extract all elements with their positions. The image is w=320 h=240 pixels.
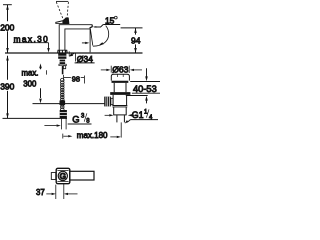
spout mouth <box>90 25 93 28</box>
faucet body inner contour <box>65 28 90 52</box>
lower shoulder line <box>113 114 126 116</box>
rod reference line <box>33 103 105 105</box>
stud step detail <box>63 66 65 69</box>
mounting stud <box>62 66 64 75</box>
dimension max.180 right arrow <box>110 136 116 138</box>
leader 15deg to spout <box>94 25 103 28</box>
shank threaded block <box>60 60 66 65</box>
dimension 94 arrows <box>134 28 137 33</box>
dimension 390 arrows <box>6 56 9 61</box>
waste locknut band <box>110 92 130 95</box>
svg-text:40-53: 40-53 <box>133 84 157 94</box>
svg-text:3: 3 <box>81 113 85 119</box>
hose end reference line <box>3 117 68 119</box>
svg-text:Ø63: Ø63 <box>112 65 128 75</box>
label diameter 34 underlined with tick <box>75 54 77 62</box>
dimension 37 arrows <box>46 193 51 195</box>
small tick <box>45 70 47 74</box>
svg-text:Ø34: Ø34 <box>77 54 93 64</box>
leader max.30 down arrow <box>48 43 50 49</box>
dimension max300 vertical <box>40 68 42 70</box>
svg-text:94: 94 <box>131 35 141 45</box>
dimension 390 vertical line <box>7 56 9 80</box>
arc arrowhead <box>99 42 104 45</box>
faucet body outer outline <box>59 25 92 53</box>
waste lower cup walls <box>113 107 115 115</box>
waste port walls <box>112 95 114 106</box>
faucet base escutcheon <box>58 50 68 53</box>
lever flat position solid <box>62 18 69 25</box>
waste body walls <box>113 83 115 92</box>
svg-text:37: 37 <box>36 188 45 197</box>
waste shoulder double line <box>112 106 127 107</box>
lever raised top cap <box>56 0 68 2</box>
svg-text:200: 200 <box>0 22 14 32</box>
lever raised dashed right edge <box>67 2 69 20</box>
dimension 98 ticks and leader <box>63 75 65 80</box>
dimension 37 extension lines <box>55 185 57 199</box>
dimension 200 vertical line <box>7 5 9 22</box>
dimension max.180 left tick and arrow <box>62 134 64 139</box>
svg-text:G: G <box>72 113 79 124</box>
waste flange dome <box>111 74 129 80</box>
tailpipe walls <box>116 115 118 122</box>
washer <box>59 64 66 66</box>
40-53 extension lines <box>130 81 160 83</box>
svg-text:max.: max. <box>22 68 39 77</box>
angle arc 15deg <box>93 26 109 47</box>
dimension 94 extension line <box>121 27 143 29</box>
top view: spout bar <box>70 171 94 180</box>
waste clamp band <box>112 81 129 83</box>
pop-up rod nut <box>104 97 111 107</box>
svg-text:98: 98 <box>72 74 80 83</box>
leader G1 1/4 arrow <box>127 120 130 123</box>
dimension 200 top tick <box>3 4 12 6</box>
dimension 200 arrows <box>6 5 9 10</box>
shank mounting nut <box>58 54 66 59</box>
nut ticks below <box>60 118 62 129</box>
flexible hose braided <box>61 78 65 82</box>
top view: aerator tab <box>51 173 55 180</box>
svg-text:390: 390 <box>0 82 14 92</box>
angle left arrow <box>82 42 86 44</box>
svg-text:4: 4 <box>149 115 153 121</box>
spout stream tilted line <box>90 29 93 46</box>
svg-text:max.180: max.180 <box>77 131 108 140</box>
svg-text:G1: G1 <box>132 110 144 120</box>
svg-text:G: G <box>60 171 67 181</box>
pop-up waste label Ø63 with ticks and arrows <box>110 66 112 73</box>
top view: body square <box>56 168 70 183</box>
G3/8 leader arrow <box>44 125 56 127</box>
deck line <box>5 52 143 54</box>
lever raised dashed left edge <box>56 2 63 21</box>
top view: Grohe logo circle <box>58 171 67 180</box>
svg-text:300: 300 <box>23 80 37 89</box>
hose ferrule <box>60 101 66 106</box>
leader Ø34 arrow <box>72 53 74 55</box>
G1 1/4 arrows at tailpipe <box>105 114 110 116</box>
hose end nut <box>60 110 67 118</box>
40-53 arrows <box>146 68 148 77</box>
waste centerline <box>120 122 122 137</box>
dimension 94 vertical line <box>135 28 137 35</box>
